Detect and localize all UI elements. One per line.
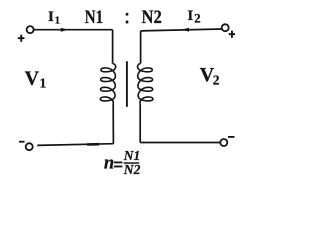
- svg-text:1: 1: [55, 15, 61, 27]
- svg-text:N1: N1: [123, 148, 140, 163]
- svg-text:N2: N2: [123, 162, 141, 177]
- svg-text:V: V: [25, 68, 40, 90]
- svg-text:2: 2: [213, 73, 220, 88]
- svg-text:2: 2: [194, 11, 201, 26]
- svg-text:N2: N2: [142, 7, 162, 28]
- svg-text:I: I: [187, 8, 193, 24]
- svg-text:n: n: [104, 154, 114, 174]
- svg-text:N1: N1: [85, 7, 103, 28]
- svg-text:1: 1: [40, 76, 47, 91]
- svg-text:I: I: [48, 9, 54, 25]
